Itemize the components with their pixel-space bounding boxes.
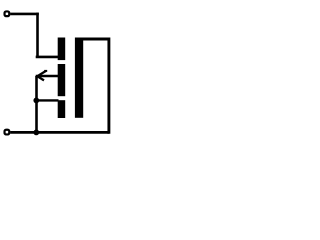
wire body/source vertical xyxy=(35,76,38,132)
wire drain lead xyxy=(36,56,59,59)
channel bar segment 1 (drain) xyxy=(58,38,65,61)
arrowhead on body lead (points left) xyxy=(37,71,46,80)
terminal pin bottom-left xyxy=(5,130,10,135)
wire source lead xyxy=(36,99,59,101)
wire body lead with arrow xyxy=(36,75,59,78)
wire bottom lead xyxy=(10,131,109,134)
junction dot at source lead xyxy=(33,98,39,104)
channel bar segment 3 (source) xyxy=(58,100,65,118)
MOSFET schematic (two-terminal icon) xyxy=(0,0,118,158)
wire trunk down from top terminal xyxy=(36,13,39,57)
wire top lead xyxy=(10,13,39,16)
wire gate loop: right side up and across to gate bar xyxy=(76,39,109,134)
gate bar xyxy=(75,38,83,118)
terminal pin top-left xyxy=(5,11,10,16)
junction dot at bottom wire xyxy=(33,130,39,136)
channel bar segment 2 (body) xyxy=(58,64,65,96)
